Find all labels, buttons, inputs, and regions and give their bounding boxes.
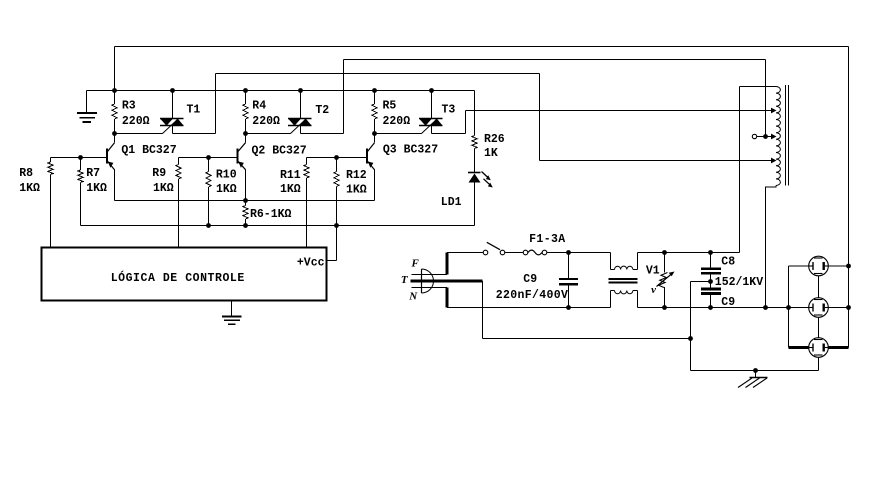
wire Q3 collector bbox=[374, 134, 376, 143]
wire F phase prong bbox=[412, 253, 448, 275]
label R3 value bbox=[122, 100, 150, 129]
wire net W3: T1 MT2 to transformer tap 3 bbox=[216, 74, 776, 161]
capacitor C9 220nF/400V bbox=[559, 253, 578, 308]
svg-text:R7: R7 bbox=[86, 167, 100, 180]
wire Q2 emitter bbox=[245, 170, 247, 201]
svg-text:1KΩ: 1KΩ bbox=[216, 183, 237, 196]
svg-text:R11: R11 bbox=[280, 169, 301, 182]
svg-text:1KΩ: 1KΩ bbox=[280, 183, 301, 196]
label R10 value bbox=[216, 169, 237, 197]
resistor R9 bbox=[176, 158, 181, 248]
label T3 bbox=[442, 104, 456, 117]
junction dot: emitter rail bbox=[243, 198, 248, 203]
wire tap2 with open terminal bbox=[757, 136, 772, 138]
junction dots: mains bottom rail bbox=[566, 305, 851, 310]
output socket TO2 bbox=[809, 298, 829, 318]
ground symbol below logic box bbox=[222, 301, 242, 325]
label +Vcc bbox=[297, 257, 325, 270]
wire T1 MT2 stub bbox=[173, 126, 216, 134]
junction dots: gate nodes bbox=[112, 131, 377, 136]
wire T3 MT2 stub bbox=[431, 126, 433, 134]
svg-text:1KΩ: 1KΩ bbox=[346, 184, 367, 197]
wire mains bottom rail bbox=[447, 307, 849, 309]
wire Q1 emitter bbox=[114, 170, 116, 201]
svg-text:1KΩ: 1KΩ bbox=[86, 182, 107, 195]
label R11 value bbox=[280, 169, 301, 196]
svg-text:R4: R4 bbox=[252, 100, 266, 113]
varistor V1 bbox=[657, 253, 675, 308]
label F1-3A bbox=[529, 233, 566, 246]
ground symbol top-left bbox=[77, 91, 97, 123]
label R6 value bbox=[250, 208, 292, 221]
output socket TO3 bbox=[809, 338, 829, 358]
svg-text:Q3 BC327: Q3 BC327 bbox=[383, 144, 438, 157]
svg-text:220Ω: 220Ω bbox=[252, 115, 280, 128]
label Q2 bbox=[252, 145, 307, 158]
svg-text:1K: 1K bbox=[484, 147, 498, 160]
wire Q1 collector bbox=[114, 134, 116, 143]
svg-text:R12: R12 bbox=[346, 169, 367, 182]
svg-text:Q2 BC327: Q2 BC327 bbox=[252, 145, 307, 158]
svg-text:Q1 BC327: Q1 BC327 bbox=[121, 144, 176, 157]
junction dots: base rows bbox=[78, 155, 339, 160]
triac T3 bbox=[419, 118, 443, 133]
junction dots: mains top rail bbox=[566, 250, 713, 255]
wire socket center stems bbox=[818, 276, 820, 371]
transformer TR1 core bbox=[786, 85, 789, 186]
wire T2 MT1 bbox=[300, 91, 302, 119]
resistor R10 bbox=[206, 158, 211, 226]
transformer tap markers bbox=[771, 108, 777, 164]
wire T2 gate bbox=[246, 133, 291, 135]
label C8 bbox=[721, 256, 735, 269]
label R26 value bbox=[484, 133, 505, 160]
svg-text:T3: T3 bbox=[442, 104, 456, 117]
svg-text:N: N bbox=[408, 291, 418, 303]
label R8 value bbox=[19, 167, 40, 195]
resistor R11 bbox=[304, 158, 309, 248]
wire Q2 collector bbox=[245, 134, 247, 143]
wire Q3 base row bbox=[307, 157, 367, 159]
resistor R5 bbox=[372, 91, 377, 134]
wire Q3 emitter bbox=[374, 170, 376, 201]
svg-text:F: F bbox=[411, 257, 420, 269]
svg-text:R8: R8 bbox=[19, 167, 33, 180]
label 152/1KV bbox=[715, 276, 763, 289]
transistor Q3 (PNP BC327) bbox=[367, 143, 375, 170]
svg-text:R9: R9 bbox=[152, 167, 166, 180]
wire T3 MT1 bbox=[431, 91, 433, 119]
svg-text:1KΩ: 1KΩ bbox=[153, 182, 174, 195]
label R9 value bbox=[152, 167, 174, 195]
capacitor C8 152/1KV bbox=[701, 253, 721, 282]
wire sockets left bus bbox=[789, 266, 809, 348]
label R12 value bbox=[346, 169, 367, 197]
svg-text:F1-3A: F1-3A bbox=[529, 233, 566, 246]
label R5 value bbox=[383, 100, 411, 129]
switch S1 bbox=[447, 242, 505, 255]
open terminal at tap2 bbox=[752, 134, 756, 138]
wire emitter rail bbox=[115, 200, 375, 202]
junction dot: socket top right bbox=[846, 264, 851, 269]
wire net RAIL: top rail y=90 with chassis ground bbox=[87, 90, 475, 92]
triac T2 bbox=[288, 118, 312, 133]
wire mains top rail bbox=[569, 252, 740, 254]
output socket TO1 bbox=[809, 256, 829, 276]
svg-text:C8: C8 bbox=[721, 256, 735, 269]
label T1 bbox=[187, 104, 201, 117]
label T2 bbox=[315, 104, 329, 117]
capacitor C9 152/1KV (lower) bbox=[701, 282, 721, 308]
svg-text:v: v bbox=[651, 284, 656, 296]
label R7 value bbox=[86, 167, 107, 195]
transistor Q2 (PNP BC327) bbox=[238, 143, 246, 170]
label R4 value bbox=[252, 100, 280, 129]
junction dots: earth net bbox=[688, 336, 758, 373]
wire N neutral prong bbox=[412, 288, 448, 308]
svg-text:R10: R10 bbox=[216, 169, 237, 182]
wire Q1 base row bbox=[51, 157, 107, 159]
wire net W2: T2 MT2 to transformer tap 2 bbox=[344, 60, 766, 137]
junction dot: transformer tap2 bbox=[763, 134, 768, 139]
resistor R6 bbox=[243, 201, 248, 226]
wire T1 MT1 bbox=[172, 91, 174, 119]
svg-text:R26: R26 bbox=[484, 133, 505, 146]
wire Q2 base row bbox=[179, 157, 237, 159]
label C9 value bbox=[496, 273, 569, 302]
svg-text:1KΩ: 1KΩ bbox=[19, 182, 40, 195]
wire +Vcc rail bbox=[81, 225, 475, 227]
resistor R26 bbox=[472, 91, 477, 173]
chassis ground symbol bbox=[738, 371, 768, 388]
svg-text:C9: C9 bbox=[721, 296, 735, 309]
label T earth bbox=[401, 274, 409, 286]
label Q1 bbox=[121, 144, 176, 157]
svg-text:220nF/400V: 220nF/400V bbox=[496, 289, 569, 302]
svg-text:C9: C9 bbox=[523, 273, 537, 286]
resistor R3 bbox=[112, 91, 117, 134]
wire net W1: rail to sockets right bus (top long wire) bbox=[115, 47, 849, 348]
svg-text:T1: T1 bbox=[187, 104, 201, 117]
svg-text:220Ω: 220Ω bbox=[383, 115, 411, 128]
wire T3 gate bbox=[375, 133, 422, 135]
wire sockets right bus bbox=[828, 266, 848, 348]
label Q3 bbox=[383, 144, 438, 157]
junction dots: +Vcc rail bbox=[206, 223, 339, 228]
svg-text:+Vcc: +Vcc bbox=[297, 257, 325, 270]
label C9 lower bbox=[721, 296, 735, 309]
svg-text:V1: V1 bbox=[646, 265, 660, 278]
wire T1 gate to node A1 bbox=[115, 133, 163, 135]
LED LD1 bbox=[468, 172, 493, 226]
inductor L1 common-mode choke bbox=[609, 253, 638, 308]
svg-text:220Ω: 220Ω bbox=[122, 115, 150, 128]
junction dot: capacitor midpoint bbox=[708, 279, 713, 284]
label logic box text bbox=[111, 271, 245, 285]
control logic box U1 bbox=[42, 248, 327, 301]
triac T1 bbox=[160, 118, 184, 133]
wire net T3 MT2 to transformer tap 1 bbox=[432, 111, 776, 134]
junction dots: top rail bbox=[112, 88, 434, 93]
svg-text:T2: T2 bbox=[315, 104, 329, 117]
svg-text:LD1: LD1 bbox=[441, 196, 462, 209]
wire T2 MT2 stub bbox=[301, 126, 344, 134]
transformer TR1 winding bbox=[740, 87, 781, 308]
label V1 bbox=[646, 265, 660, 297]
wire earth net to cap midpoint and ground bbox=[483, 282, 819, 371]
svg-text:R3: R3 bbox=[122, 100, 136, 113]
resistor R12 bbox=[327, 158, 340, 261]
fuse F1 3A bbox=[505, 250, 568, 255]
mains plug P1 bbox=[422, 269, 434, 293]
resistor R4 bbox=[243, 91, 248, 134]
resistor R8 bbox=[48, 158, 53, 248]
svg-text:R5: R5 bbox=[383, 100, 397, 113]
svg-text:152/1KV: 152/1KV bbox=[715, 276, 763, 289]
wire T earth prong bbox=[411, 281, 483, 339]
resistor R7 bbox=[78, 158, 83, 226]
transistor Q1 (PNP BC327) bbox=[107, 143, 115, 170]
label F phase bbox=[411, 257, 420, 269]
label N neutral bbox=[408, 291, 418, 303]
label LD1 bbox=[441, 196, 462, 209]
svg-text:R6-1KΩ: R6-1KΩ bbox=[250, 208, 292, 221]
svg-text:LÓGICA DE CONTROLE: LÓGICA DE CONTROLE bbox=[111, 271, 245, 285]
